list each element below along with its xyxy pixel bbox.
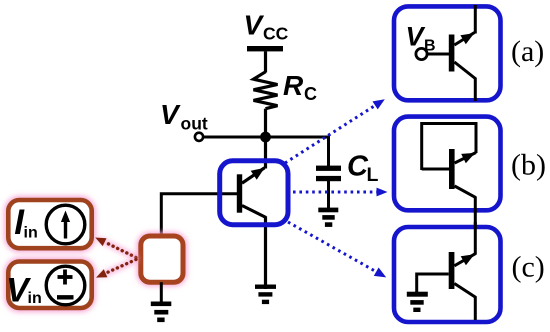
box c collector wire down bbox=[474, 297, 477, 321]
ground under input box bbox=[151, 302, 172, 323]
input network box bbox=[141, 236, 183, 282]
box b base wire bbox=[422, 168, 449, 171]
box a base wire bbox=[427, 53, 449, 56]
wire Vout to CL branch bbox=[203, 136, 328, 139]
capacitor CL plates bbox=[316, 166, 341, 182]
voltage source minus sign bbox=[57, 295, 74, 299]
current source Iin circle bbox=[46, 205, 85, 244]
svg-text:L: L bbox=[367, 164, 379, 186]
box c outline bbox=[394, 227, 501, 322]
wire Q1 emitter to node bbox=[264, 133, 267, 169]
box a transistor base bar bbox=[449, 35, 455, 72]
svg-text:in: in bbox=[24, 225, 38, 242]
label VCC bbox=[244, 10, 289, 44]
label RC bbox=[283, 70, 317, 104]
box c transistor base bar bbox=[449, 252, 455, 289]
svg-text:in: in bbox=[28, 290, 42, 307]
svg-text:(a): (a) bbox=[511, 35, 544, 68]
voltage source Vin circle bbox=[46, 266, 85, 305]
wire Q1 collector to ground bbox=[264, 217, 267, 290]
box b emitter diagonal with arrow bbox=[455, 153, 476, 164]
label Iin bbox=[14, 203, 38, 242]
box a outline bbox=[394, 6, 501, 100]
input network box glow bbox=[141, 236, 183, 282]
svg-text:out: out bbox=[181, 114, 208, 134]
Iin source box bbox=[8, 200, 91, 248]
transistor Q1 base bar bbox=[237, 174, 242, 212]
box b outline bbox=[394, 117, 501, 211]
box b collector diagonal bbox=[455, 186, 476, 198]
svg-text:CC: CC bbox=[263, 24, 289, 44]
blue dotted arrow to box b bbox=[293, 188, 388, 197]
box a collector diagonal bbox=[454, 62, 476, 79]
box a emitter diagonal with arrow bbox=[454, 33, 474, 46]
VCC supply bar bbox=[247, 46, 283, 51]
box c collector wire from top bbox=[474, 222, 477, 255]
red dotted arrow to Iin glow bbox=[99, 239, 137, 258]
box c ground wire bbox=[415, 273, 418, 295]
resistor RC bbox=[254, 72, 278, 109]
svg-text:R: R bbox=[283, 70, 304, 101]
red dotted arrow to Vin glow bbox=[100, 260, 137, 277]
box b feedback loop wire bbox=[422, 124, 476, 171]
VB terminal circle bbox=[416, 48, 427, 59]
svg-text:(c): (c) bbox=[512, 251, 545, 284]
Vout terminal circle bbox=[195, 133, 203, 141]
highlight box around transistor Q1 bbox=[220, 161, 288, 225]
transistor Q1 emitter diagonal with arrow bbox=[242, 168, 265, 183]
red dotted arrow to Iin bbox=[95, 238, 136, 258]
wire base from input box to transistor Q1 bbox=[161, 194, 237, 237]
svg-text:V: V bbox=[244, 10, 265, 41]
svg-text:V: V bbox=[160, 99, 181, 130]
node junction dot bbox=[260, 132, 271, 143]
box a emitter wire up bbox=[474, 5, 477, 34]
box b collector wire down bbox=[474, 197, 477, 232]
label Vin bbox=[6, 272, 42, 310]
wire input box to ground bbox=[160, 282, 163, 304]
blue dotted arrow to box a bbox=[285, 99, 385, 163]
ground under CL bbox=[318, 208, 338, 227]
box c base wire bbox=[417, 273, 449, 276]
blue dotted arrow to box c bbox=[288, 222, 386, 277]
box b transistor base bar bbox=[449, 149, 455, 189]
label Vout bbox=[160, 99, 208, 134]
box c emitter diagonal with arrow bbox=[454, 254, 475, 266]
ground under Q1 bbox=[255, 285, 276, 305]
box c collector diagonal bbox=[454, 284, 476, 298]
svg-text:V: V bbox=[406, 21, 426, 51]
svg-text:(b): (b) bbox=[511, 149, 546, 182]
box c ground bbox=[407, 292, 428, 312]
label VB bbox=[406, 21, 436, 54]
red dotted arrow to Vin bbox=[96, 260, 136, 278]
wire CL to ground bbox=[327, 181, 330, 210]
Vin source box glow bbox=[8, 262, 91, 309]
current source Iin arrow bbox=[61, 211, 70, 239]
Iin source box glow bbox=[8, 200, 91, 248]
wire RC to node bbox=[264, 109, 267, 141]
wire down to capacitor CL bbox=[327, 136, 330, 167]
svg-text:C: C bbox=[304, 84, 317, 104]
Vin source box bbox=[8, 262, 91, 309]
label CL bbox=[347, 151, 379, 187]
transistor Q1 collector diagonal bbox=[242, 206, 266, 218]
box a collector wire down bbox=[474, 78, 477, 101]
wire VCC bar to resistor RC bbox=[264, 51, 267, 72]
voltage source plus sign bbox=[58, 270, 73, 285]
